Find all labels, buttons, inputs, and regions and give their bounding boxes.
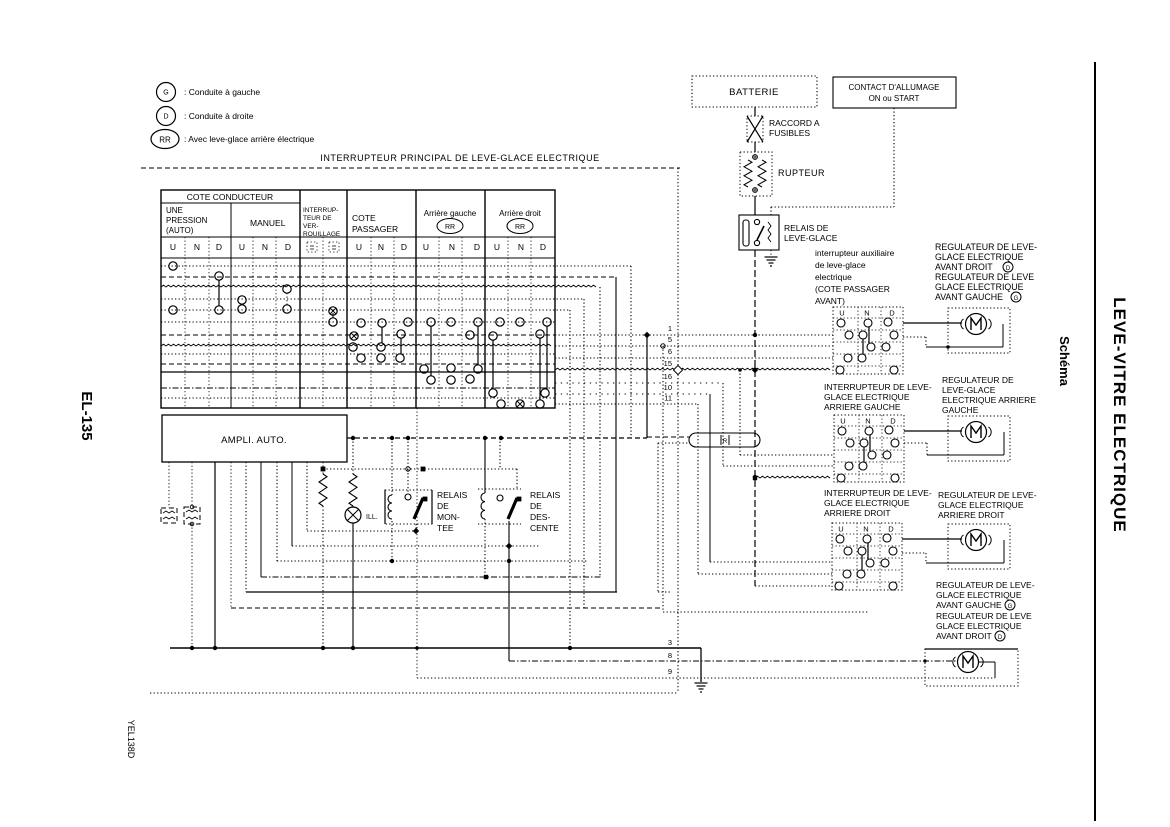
svg-text:RR: RR (445, 224, 455, 231)
wire block1 to motor1 (903, 322, 962, 324)
arriere droit contacts (496, 318, 504, 326)
svg-text:G: G (1014, 296, 1019, 302)
conducteur contact U auto low (169, 306, 177, 314)
wire row y299 dotted (161, 298, 584, 300)
svg-text:3: 3 (668, 638, 672, 647)
svg-text:N: N (865, 417, 870, 426)
svg-text:INTERRUPTEUR DE LEVE-: INTERRUPTEUR DE LEVE- (824, 382, 932, 392)
rupteur circuit breaker (740, 152, 772, 196)
svg-text:ILL.: ILL. (366, 514, 378, 521)
conducteur contact D pair (215, 272, 223, 280)
svg-text:REGULATEUR DE LEVE: REGULATEUR DE LEVE (936, 611, 1032, 621)
svg-text:U: U (840, 417, 845, 426)
relais de leve-glace box (739, 215, 779, 250)
dashed wire y608 (231, 607, 663, 609)
conducteur contact U manuel pair (238, 296, 246, 304)
svg-text:RELAIS: RELAIS (530, 490, 561, 500)
wire 8 horizontal dash-dot (509, 660, 957, 662)
svg-text:EL-135: EL-135 (78, 391, 95, 440)
wire 9 horizontal dotted (417, 677, 995, 679)
motor 4 regulateur avant bottom (925, 649, 1018, 686)
svg-text:GLACE ELECTRIQUE: GLACE ELECTRIQUE (935, 282, 1024, 292)
staircase wire 2 x261 to y577 dashdot (260, 462, 262, 577)
legend symbol RR - avec leve-glace arriere electrique (151, 130, 179, 149)
table column lines dotted (184, 237, 186, 408)
resistor R2 (352, 438, 354, 474)
svg-text:RR: RR (159, 136, 171, 145)
svg-text:N: N (863, 525, 868, 534)
illumination lamp (352, 506, 354, 507)
switch block row lines (832, 533, 902, 535)
connector symbol 2 (191, 462, 193, 507)
svg-text:CONTACT D'ALLUMAGE: CONTACT D'ALLUMAGE (848, 83, 939, 92)
switch block row lines (833, 317, 903, 319)
svg-text:N: N (194, 242, 200, 252)
svg-text:ON ou START: ON ou START (869, 94, 920, 103)
svg-text:AVANT): AVANT) (815, 296, 845, 306)
main switch dashed box bottom edge (150, 692, 678, 694)
svg-text:RR: RR (515, 224, 525, 231)
svg-text:DE: DE (437, 501, 449, 511)
bottom bus wire 3 solid (170, 647, 701, 649)
wire row y310 dotted (161, 309, 570, 311)
montee arm bottom junction (415, 524, 417, 531)
feeder x710 to block3 row562 (709, 394, 711, 562)
svg-text:GLACE ELECTRIQUE: GLACE ELECTRIQUE (935, 252, 1024, 262)
ampli auto box (162, 415, 347, 462)
svg-text:G: G (1008, 604, 1013, 610)
motor1 return loop (903, 336, 926, 338)
svg-text:TEUR DE: TEUR DE (303, 215, 332, 222)
svg-text:DES-: DES- (530, 512, 550, 522)
wire fusible to rupteur (754, 142, 756, 152)
svg-text:REGULATEUR DE LEVE-: REGULATEUR DE LEVE- (936, 580, 1035, 590)
switch block column lines (857, 307, 859, 374)
wire row y277 dashed (161, 276, 616, 278)
svg-text:16: 16 (664, 372, 672, 381)
svg-text:N: N (864, 309, 869, 318)
main ground symbol (695, 682, 708, 684)
svg-text:INTERRUP-: INTERRUP- (303, 207, 338, 214)
pin wire 15 wavy (555, 368, 755, 370)
svg-text:de leve-glace: de leve-glace (815, 260, 866, 270)
staircase wire 4 x292 to y546 (291, 462, 293, 546)
svg-text:PASSAGER: PASSAGER (352, 224, 398, 234)
wire row y354 dotted (161, 353, 555, 355)
svg-text:U: U (838, 525, 843, 534)
feeder x698 to block3 row574 (697, 404, 699, 574)
svg-text:GLACE ELECTRIQUE: GLACE ELECTRIQUE (938, 500, 1024, 510)
wire y469 dotted (323, 468, 517, 470)
svg-text:(AUTO): (AUTO) (166, 226, 194, 235)
staircase wire 1 x246 to y592 (245, 462, 247, 592)
switch block contacts (838, 427, 846, 435)
svg-text:PRESSION: PRESSION (166, 216, 208, 225)
svg-text:Arrière droit: Arrière droit (499, 209, 542, 218)
svg-text:U: U (170, 242, 176, 252)
connector symbol 1 (168, 462, 170, 508)
wire row y398 dotted (161, 397, 555, 399)
svg-text:1: 1 (668, 324, 672, 333)
wire row y388 dash-dot (161, 387, 555, 389)
svg-text:6: 6 (668, 347, 672, 356)
svg-text:5: 5 (668, 335, 672, 344)
svg-text:VER-: VER- (303, 223, 319, 230)
svg-text:D: D (285, 242, 291, 252)
svg-text:ARRIERE DROIT: ARRIERE DROIT (938, 510, 1005, 520)
svg-text:9: 9 (668, 667, 672, 676)
lock switch contacts (329, 307, 337, 315)
motor4 return loop (979, 661, 995, 663)
svg-text:REGULATEUR DE LEVE-: REGULATEUR DE LEVE- (938, 490, 1037, 500)
switch block contact links (869, 435, 871, 451)
legend symbol G - conduite a gauche (157, 83, 176, 102)
switch block box (832, 523, 902, 590)
switch block contact links (868, 327, 870, 343)
switch block row lines (834, 425, 904, 427)
wire row y287 wavy (161, 285, 596, 287)
svg-text:N: N (449, 242, 455, 252)
svg-text:U: U (356, 242, 362, 252)
svg-text:CENTE: CENTE (530, 523, 559, 533)
svg-text:D: D (216, 242, 222, 252)
wire 9 vertical x417 (416, 408, 418, 678)
svg-text:U: U (839, 309, 844, 318)
table outer border (161, 190, 555, 408)
svg-text:AVANT GAUCHE: AVANT GAUCHE (935, 292, 1003, 302)
table letters row line (161, 236, 555, 238)
svg-text:: Avec leve-glace arrière élec: : Avec leve-glace arrière électrique (184, 134, 315, 144)
svg-text:MANUEL: MANUEL (250, 218, 286, 228)
page right border line (1094, 62, 1096, 821)
switch block box (834, 415, 904, 482)
svg-text:LEVE-GLACE: LEVE-GLACE (942, 385, 996, 395)
svg-text:ELECTRIQUE ARRIERE: ELECTRIQUE ARRIERE (942, 395, 1036, 405)
svg-text:COTE: COTE (352, 213, 376, 223)
junction on motor4 box edge (923, 659, 926, 662)
svg-text:GLACE ELECTRIQUE: GLACE ELECTRIQUE (936, 621, 1022, 631)
svg-text:D: D (401, 242, 407, 252)
svg-text:AVANT GAUCHE: AVANT GAUCHE (936, 600, 1002, 610)
arriere gauche contacts (427, 318, 435, 326)
svg-text:UNE: UNE (166, 206, 183, 215)
pin wire 1 (555, 334, 678, 336)
staircase wire 5 x307 to y531 (306, 462, 308, 531)
lock switch tiny symbols (307, 242, 317, 252)
main switch dashed box top edge (141, 167, 680, 169)
left vertical wire x215 (214, 462, 216, 648)
svg-text:D: D (998, 635, 1003, 641)
switch block column lines (858, 415, 860, 482)
legend symbol D - conduite a droite (157, 107, 176, 126)
wire x647 up to pin1 (646, 335, 648, 438)
svg-text:RELAIS: RELAIS (437, 490, 468, 500)
svg-text:TEE: TEE (437, 523, 454, 533)
motor3 return loop (902, 552, 926, 554)
svg-text:D: D (890, 417, 896, 426)
wire rupteur to relay (754, 196, 756, 215)
svg-text:REGULATEUR DE LEVE: REGULATEUR DE LEVE (935, 272, 1034, 282)
wire block2 to motor2 (904, 430, 962, 432)
svg-text:FUSIBLES: FUSIBLES (769, 128, 810, 138)
main switch dashed box right edge (677, 168, 679, 693)
relais de montee contact (407, 438, 409, 493)
motor 2 regulateur arriere gauche (948, 416, 1010, 461)
wire battery down (754, 107, 756, 116)
svg-text:ARRIERE GAUCHE: ARRIERE GAUCHE (824, 402, 901, 412)
svg-text:REGULATEUR DE: REGULATEUR DE (942, 375, 1014, 385)
switch block contact links (867, 543, 869, 559)
svg-text:GLACE ELECTRIQUE: GLACE ELECTRIQUE (824, 392, 910, 402)
relais de descente dotted edges (478, 488, 521, 490)
svg-text:INTERRUPTEUR DE LEVE-: INTERRUPTEUR DE LEVE- (824, 488, 932, 498)
svg-text:N: N (518, 242, 524, 252)
svg-text:GLACE ELECTRIQUE: GLACE ELECTRIQUE (936, 590, 1022, 600)
svg-text:REGULATEUR DE LEVE-: REGULATEUR DE LEVE- (935, 242, 1037, 252)
svg-text:electrique: electrique (815, 272, 852, 282)
pin wire 6 (555, 357, 678, 359)
svg-text:AMPLI. AUTO.: AMPLI. AUTO. (221, 435, 287, 446)
svg-text:RELAIS DE: RELAIS DE (784, 223, 829, 233)
svg-text:AVANT DROIT: AVANT DROIT (935, 262, 993, 272)
motor 3 regulateur arriere droit (948, 524, 1010, 569)
ignition wire dotted (893, 108, 895, 207)
switch block column lines (856, 523, 858, 590)
relay ground (770, 250, 772, 256)
wire block3 to motor3 (902, 538, 962, 540)
svg-text:(COTE PASSAGER: (COTE PASSAGER (815, 284, 890, 294)
montee coil bottom wire (391, 521, 393, 561)
wire y443 dotted into pill (658, 442, 689, 444)
conducteur contact D manuel pair (283, 285, 291, 293)
svg-text:D: D (474, 242, 480, 252)
pin wire 11 (555, 403, 698, 405)
svg-text:GLACE ELECTRIQUE: GLACE ELECTRIQUE (824, 498, 910, 508)
passager contacts (357, 319, 365, 327)
contact d'allumage box (833, 77, 956, 108)
svg-text:MON-: MON- (437, 512, 460, 522)
wire row y364 dashed (161, 363, 555, 365)
svg-text:AVANT DROIT: AVANT DROIT (936, 631, 992, 641)
conducteur contact U auto (169, 262, 177, 270)
svg-text:N: N (262, 242, 268, 252)
svg-text:N: N (378, 242, 384, 252)
wire y612 dotted (663, 611, 868, 613)
svg-text:15: 15 (664, 359, 672, 368)
relay output wire dashed down (754, 250, 756, 586)
wire row y266 dotted (161, 265, 631, 267)
bus junction dots y438 (351, 436, 355, 440)
bottom bus junction dots (190, 646, 194, 650)
switch block contacts (837, 319, 845, 327)
pin wire 10 (555, 393, 710, 395)
motor2 return loop (904, 442, 927, 444)
svg-text:RACCORD A: RACCORD A (769, 118, 820, 128)
switch block contacts (836, 535, 844, 543)
wire row y322 dotted (161, 321, 555, 323)
table-to-bus verticals right of table (569, 310, 571, 648)
svg-text:D: D (163, 114, 168, 121)
wire bus y437 into pill (647, 436, 689, 438)
feeder wavy y478 to block2 (753, 476, 757, 480)
svg-text:GAUCHE: GAUCHE (942, 405, 979, 415)
svg-text:U: U (423, 242, 429, 252)
wire row y346 wavy (161, 344, 551, 346)
svg-text:: Conduite à gauche: : Conduite à gauche (184, 87, 260, 97)
table section dividers (299, 190, 301, 408)
fusible link symbol (747, 116, 763, 142)
pill connector (689, 433, 760, 447)
svg-text:D: D (889, 309, 895, 318)
relais de descente coil (484, 438, 486, 493)
svg-text:G: G (163, 90, 168, 97)
resistor R1 (322, 462, 324, 474)
descente arm wire down - wire 8 vertical (508, 521, 510, 661)
batterie box (692, 76, 817, 107)
svg-text:DE: DE (530, 501, 542, 511)
wire row y335 dashed (161, 334, 555, 336)
relais de montee box (385, 490, 432, 524)
feeder y586 to block3 (755, 585, 832, 587)
svg-text:BATTERIE: BATTERIE (729, 87, 779, 98)
motor 1 regulateur avant (948, 308, 1010, 353)
svg-text:LEVE-VITRE ELECTRIQUE: LEVE-VITRE ELECTRIQUE (1110, 297, 1129, 532)
svg-text:U: U (239, 242, 245, 252)
feeder x740 to block2 row455 (739, 370, 741, 455)
svg-text:COTE CONDUCTEUR: COTE CONDUCTEUR (187, 192, 273, 202)
svg-text:YEL138D: YEL138D (126, 720, 136, 759)
svg-text:Arrière gauche: Arrière gauche (424, 209, 477, 218)
svg-text:INTERRUPTEUR PRINCIPAL DE LEVE: INTERRUPTEUR PRINCIPAL DE LEVE-GLACE ELE… (320, 153, 599, 163)
pin wire 5 (555, 345, 678, 347)
svg-text:Schéma: Schéma (1057, 336, 1072, 387)
table bottom dashed line y408 (161, 407, 555, 409)
svg-text:interrupteur auxiliaire: interrupteur auxiliaire (815, 248, 895, 258)
svg-text:10: 10 (664, 383, 672, 392)
staircase wire 3 x277 to y561 (276, 462, 278, 561)
feeder x723 to block2 row466 (722, 383, 724, 466)
svg-text:U: U (494, 242, 500, 252)
svg-text:R: R (723, 439, 728, 445)
svg-text:LEVE-GLACE: LEVE-GLACE (784, 233, 838, 243)
pin wire 16 (555, 382, 723, 384)
svg-text:11: 11 (664, 394, 672, 403)
svg-text:: Conduite à droite: : Conduite à droite (184, 111, 254, 121)
svg-text:D: D (540, 242, 546, 252)
wire row y372 solid (161, 371, 555, 373)
relais de descente contact (499, 438, 501, 469)
svg-text:ARRIERE DROIT: ARRIERE DROIT (824, 508, 891, 518)
switch block box (833, 307, 903, 374)
svg-text:RUPTEUR: RUPTEUR (778, 168, 825, 178)
relais de montee coil (391, 438, 393, 495)
svg-text:8: 8 (668, 651, 672, 660)
bus wire y438 dashed from ampli (347, 437, 647, 439)
svg-text:D: D (888, 525, 894, 534)
